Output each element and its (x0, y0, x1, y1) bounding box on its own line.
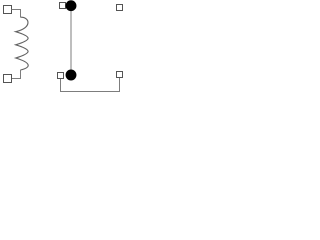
junction dot D1 (top node) (66, 0, 77, 11)
wire from P4 bottom, along bottom edge, up to P5 (61, 78, 120, 92)
inductor L1 coil (4 loops) (16, 17, 29, 70)
wire from coil bottom to P2 (12, 70, 21, 79)
port square P4 (left of bottom junction dot) (58, 73, 64, 79)
port square P1 (top-left terminal of inductor) (4, 6, 12, 14)
wire from P1 to coil top (12, 10, 21, 18)
port square P2 (bottom-left terminal of inductor) (4, 75, 12, 83)
port square P5 (bottom-right terminal) (117, 72, 123, 78)
port square P3 (left of top junction dot) (60, 3, 66, 9)
wire vertical between junction dots (70, 6, 72, 75)
junction dot D2 (bottom node) (66, 70, 77, 81)
port square P6 (isolated top-right terminal) (117, 5, 123, 11)
